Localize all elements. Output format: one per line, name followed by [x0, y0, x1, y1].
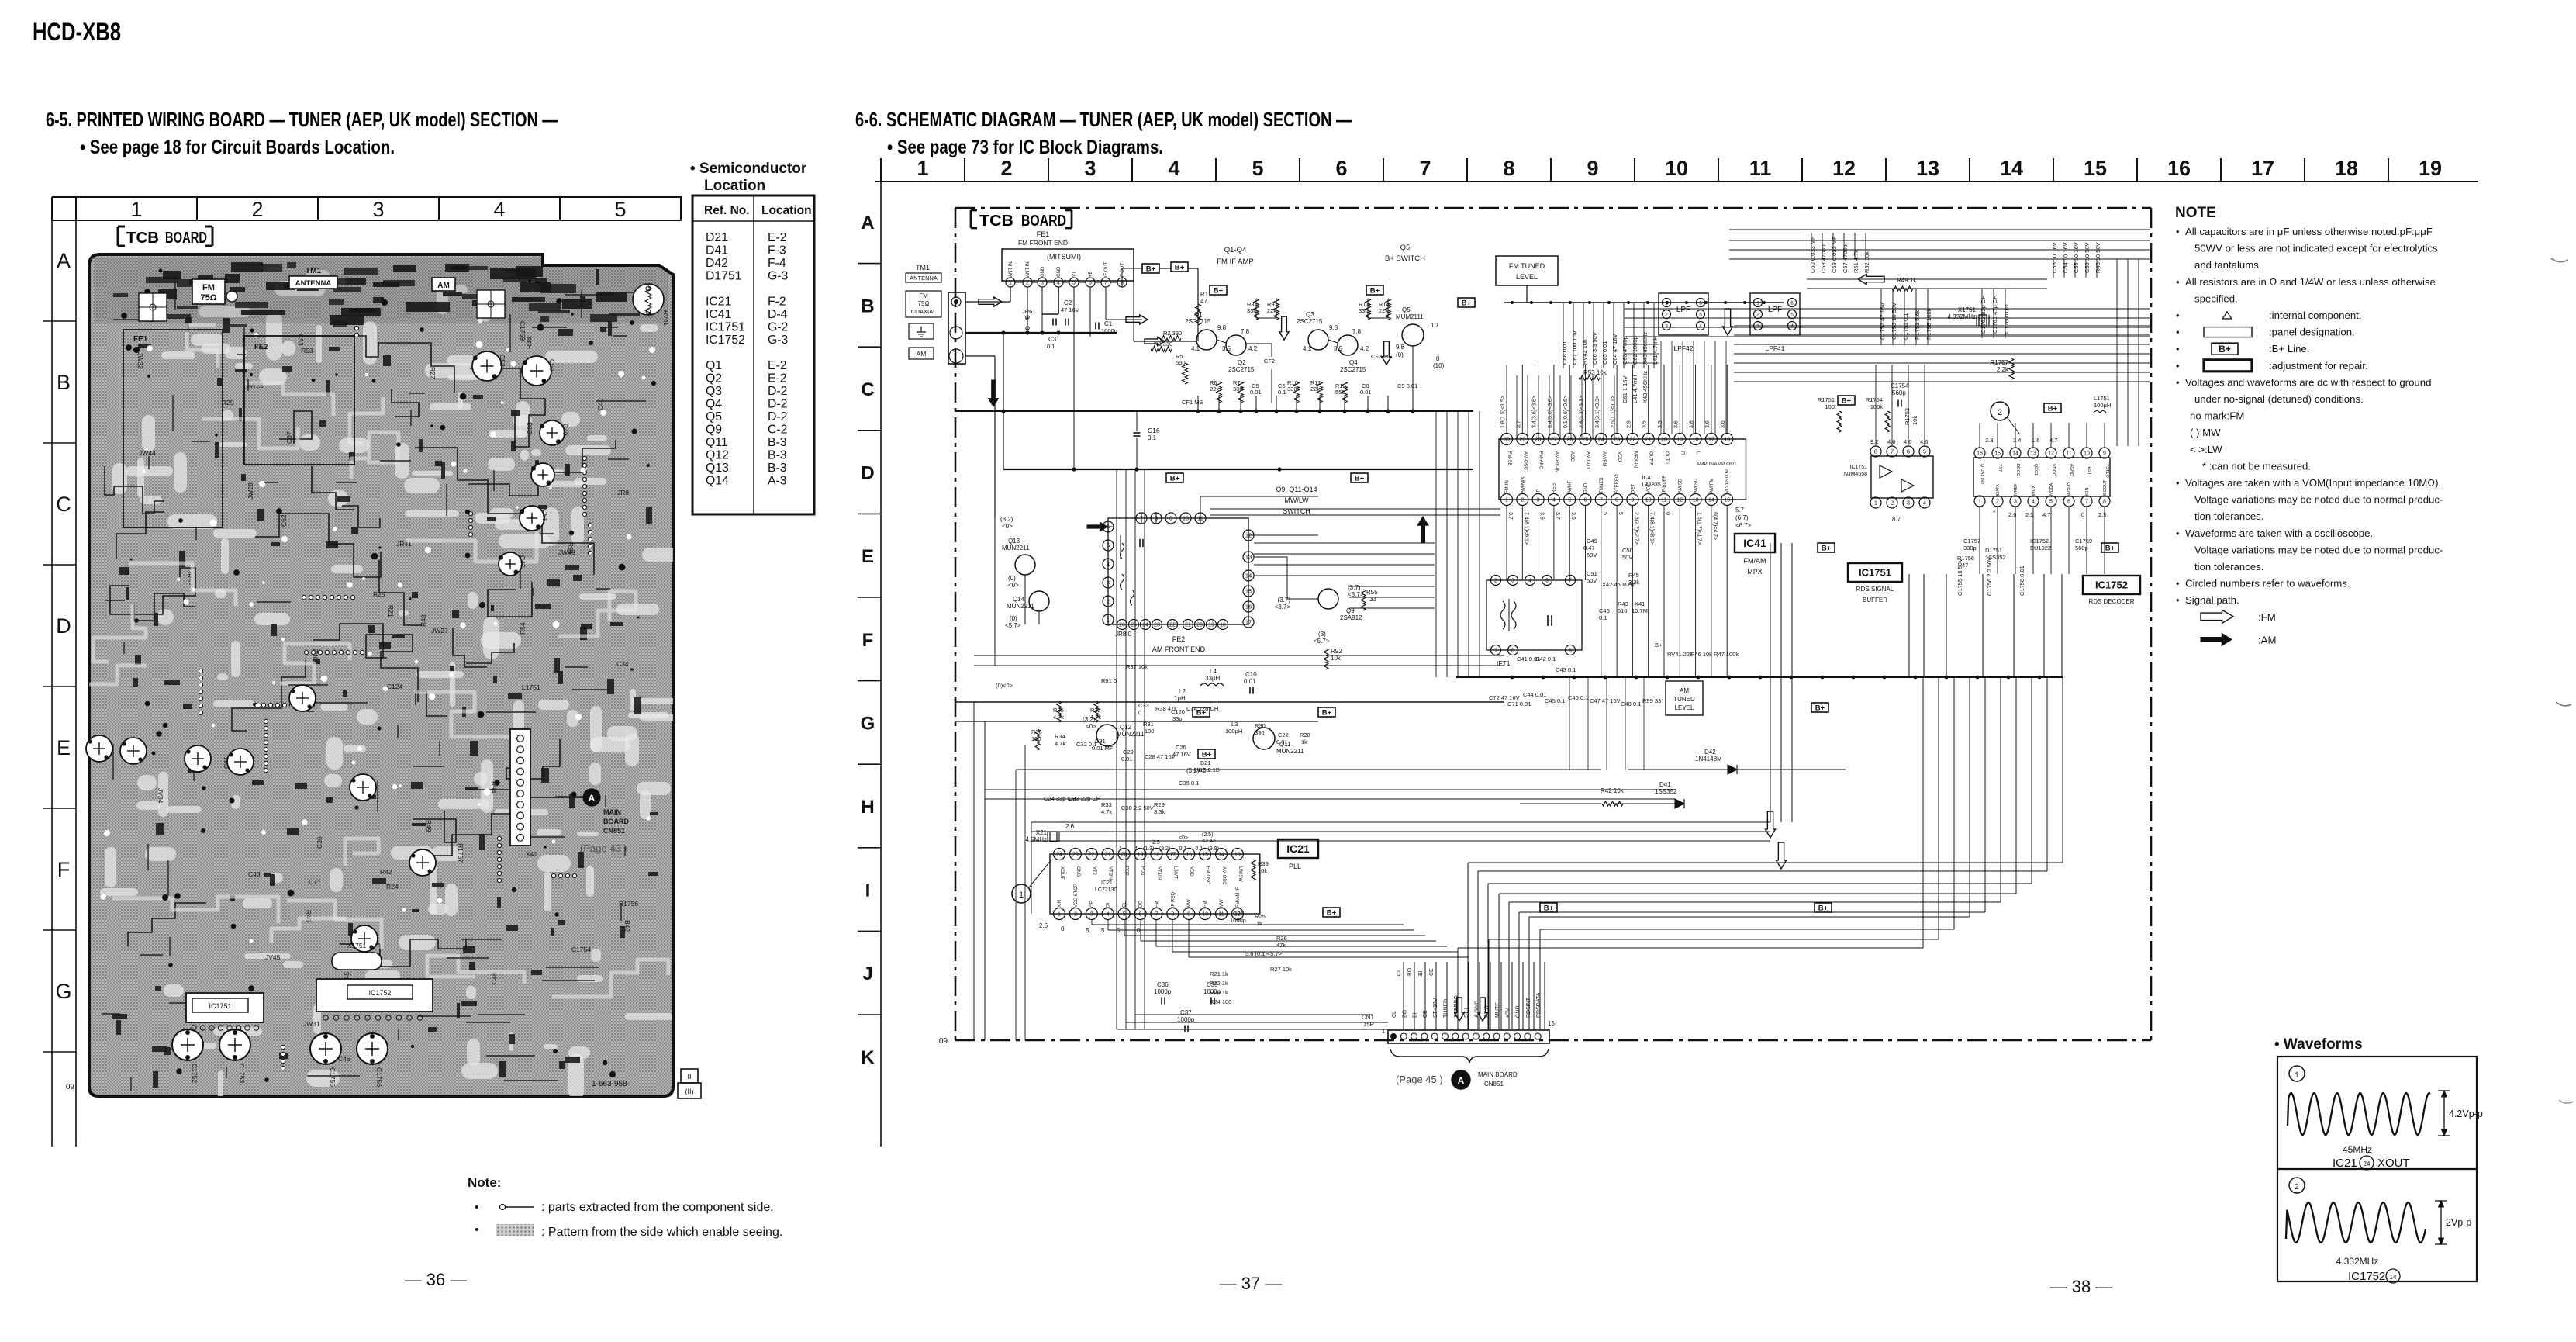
svg-text:14: 14 — [1708, 498, 1714, 503]
wire bundle FE2 to mid — [1254, 542, 1435, 544]
svg-text:R27: R27 — [429, 367, 437, 379]
svg-text:0.01: 0.01 — [1244, 678, 1256, 685]
svg-text:2: 2 — [1996, 500, 1999, 505]
svg-text:tion tolerances.: tion tolerances. — [2194, 510, 2263, 522]
svg-text:IC21: IC21 — [706, 296, 732, 309]
svg-text:GND: GND — [1516, 1005, 1521, 1018]
svg-text:0.1: 0.1 — [1148, 434, 1157, 441]
svg-text:R24: R24 — [386, 883, 399, 891]
svg-text:C1757: C1757 — [1963, 538, 1980, 545]
svg-text:R33: R33 — [1101, 801, 1112, 808]
svg-text:VCO: VCO — [1617, 451, 1621, 462]
svg-text:Note:: Note: — [468, 1175, 501, 1190]
svg-text:5: 5 — [1086, 927, 1089, 934]
waveform 1 panel — [2289, 1066, 2305, 1081]
svg-text:• Waveforms: • Waveforms — [2274, 1036, 2363, 1053]
svg-text:(10): (10) — [1433, 362, 1445, 369]
svg-text:Q14: Q14 — [1013, 596, 1025, 603]
svg-text:(3): (3) — [1318, 631, 1326, 638]
svg-text:6: 6 — [1790, 300, 1794, 306]
svg-text:JW28: JW28 — [247, 482, 254, 500]
B+ box FE1 — [1142, 264, 1159, 273]
svg-text:1: 1 — [917, 157, 928, 180]
svg-text:100: 100 — [1145, 728, 1155, 735]
svg-text:16: 16 — [1245, 604, 1252, 610]
svg-text:IC41: IC41 — [1743, 537, 1766, 549]
svg-text:IF-BUFF: IF-BUFF — [1663, 476, 1667, 493]
svg-text:100: 100 — [1825, 403, 1835, 410]
svg-text:100k: 100k — [1870, 403, 1884, 410]
svg-text:3: 3 — [1107, 579, 1110, 586]
svg-text:R54: R54 — [519, 622, 527, 635]
svg-text:R91 0: R91 0 — [1101, 677, 1117, 684]
svg-text:C43 0.1: C43 0.1 — [1556, 666, 1576, 673]
svg-text:8.7: 8.7 — [1892, 516, 1901, 523]
transistor Q12 — [1096, 725, 1118, 746]
svg-text:4.1: 4.1 — [1191, 345, 1200, 352]
svg-text:4.1: 4.1 — [1303, 345, 1312, 352]
svg-text:27: 27 — [1551, 438, 1557, 443]
svg-text:(0): (0) — [1010, 615, 1017, 622]
svg-text:CL: CL — [1392, 1011, 1397, 1018]
svg-text:2: 2 — [1998, 408, 2002, 417]
svg-text:47k: 47k — [1276, 942, 1286, 949]
svg-text:(Page 45 ): (Page 45 ) — [1396, 1074, 1443, 1085]
svg-text:OUT R: OUT R — [1649, 451, 1653, 466]
svg-text:C33: C33 — [1138, 702, 1149, 709]
svg-text:7.8: 7.8 — [1241, 328, 1250, 335]
svg-text:• Semiconductor: • Semiconductor — [690, 161, 807, 177]
svg-text:AGC: AGC — [1569, 451, 1574, 462]
svg-text:C10: C10 — [1245, 671, 1257, 678]
svg-text:BOARD: BOARD — [1021, 213, 1066, 230]
svg-text:C71 0.01: C71 0.01 — [1507, 700, 1531, 707]
svg-text:1k: 1k — [1301, 738, 1307, 745]
svg-text:R39: R39 — [1258, 860, 1269, 867]
svg-text:•: • — [2176, 578, 2180, 590]
svg-text:9: 9 — [1631, 498, 1634, 503]
svg-text:C64 47 16V: C64 47 16V — [1611, 334, 1618, 365]
svg-text:<0>: <0> — [1086, 723, 1096, 730]
svg-text:Q13: Q13 — [706, 462, 729, 475]
svg-text:FM/AM: FM/AM — [1744, 557, 1766, 565]
svg-text:C36: C36 — [1157, 981, 1169, 988]
IC41 boxed label — [1735, 534, 1775, 552]
svg-text:AGND: AGND — [2067, 482, 2072, 495]
svg-text:FM IF AMP: FM IF AMP — [1217, 258, 1254, 266]
svg-text:C35 0.1: C35 0.1 — [1179, 780, 1199, 787]
svg-text:0.01: 0.01 — [1360, 389, 1372, 396]
svg-text:18: 18 — [1154, 853, 1160, 858]
svg-text:9: 9 — [1169, 515, 1172, 522]
svg-text:• See page 73 for IC Block Dia: • See page 73 for IC Block Diagrams. — [887, 137, 1163, 158]
svg-text:FM: FM — [1155, 901, 1159, 908]
svg-text:10.7M: 10.7M — [1632, 607, 1648, 614]
svg-text:C1759: C1759 — [519, 321, 527, 341]
svg-text:14: 14 — [2012, 451, 2018, 457]
svg-text:6: 6 — [1569, 649, 1572, 654]
wire bundle IC41 top to LPF — [1660, 341, 1662, 434]
svg-text:7: 7 — [1419, 157, 1431, 180]
svg-text:R30: R30 — [1255, 722, 1266, 729]
svg-text:DO: DO — [1139, 901, 1144, 908]
svg-text::B+ Line.: :B+ Line. — [2269, 343, 2309, 355]
svg-text:AM-RF-IN: AM-RF-IN — [1554, 451, 1559, 472]
long vertical wires center-left — [1116, 469, 1117, 1029]
svg-text:ANT IN: ANT IN — [1026, 261, 1031, 277]
waveform 2 panel — [2289, 1178, 2305, 1193]
svg-text:MPX: MPX — [1747, 568, 1763, 576]
svg-text:4.332MHz: 4.332MHz — [1948, 313, 1976, 320]
svg-text:4.2: 4.2 — [1248, 345, 1258, 352]
svg-text:C1755 10 50V: C1755 10 50V — [1956, 559, 1963, 596]
svg-text:• See page 18 for Circuit Boar: • See page 18 for Circuit Boards Locatio… — [80, 137, 395, 158]
svg-text:3.6: 3.6 — [1539, 512, 1545, 520]
svg-text:3.5: 3.5 — [1222, 345, 1231, 352]
svg-text:21: 21 — [1645, 438, 1652, 443]
svg-text:R28: R28 — [1300, 732, 1310, 738]
svg-text:C53 10 50V: C53 10 50V — [2084, 242, 2091, 273]
svg-text:C2: C2 — [1064, 299, 1072, 306]
svg-text:C67 100 10V: C67 100 10V — [1571, 330, 1578, 365]
svg-text::internal component.: :internal component. — [2269, 310, 2362, 321]
svg-text:NJM4558: NJM4558 — [1844, 472, 1867, 477]
svg-text:3: 3 — [1041, 281, 1044, 286]
svg-text:C60 0.033 MF: C60 0.033 MF — [1809, 236, 1816, 273]
wire verticals J row — [1569, 677, 1570, 770]
svg-text:A: A — [589, 793, 596, 804]
svg-text:<5.7>: <5.7> — [1314, 638, 1330, 645]
svg-text:75Ω: 75Ω — [918, 300, 930, 307]
svg-text:C46: C46 — [1599, 607, 1610, 614]
arrow left of R49 — [1858, 275, 1884, 285]
svg-text:47: 47 — [1200, 298, 1207, 305]
svg-text:TS7: TS7 — [1998, 464, 2002, 472]
svg-text:D1751: D1751 — [1985, 547, 2002, 554]
IC41 pin rows — [1499, 439, 1746, 500]
svg-text:CIN: CIN — [2085, 488, 2090, 496]
svg-text:B+: B+ — [1822, 545, 1832, 553]
svg-text:C68 0.01: C68 0.01 — [1561, 341, 1568, 365]
svg-text:: Pattern from the side which: : Pattern from the side which enable see… — [541, 1226, 782, 1239]
svg-text:R2 330: R2 330 — [1163, 330, 1182, 337]
svg-text:PLL: PLL — [1289, 863, 1301, 870]
svg-text:6(4.7)<4.7>: 6(4.7)<4.7> — [1712, 512, 1718, 540]
svg-text:FM: FM — [202, 283, 215, 292]
svg-text:2: 2 — [1494, 579, 1497, 584]
svg-text:3: 3 — [1511, 579, 1514, 584]
svg-text:CE: CE — [1429, 968, 1435, 976]
svg-text:4.7: 4.7 — [2042, 511, 2050, 518]
svg-text:MW: MW — [1220, 899, 1224, 908]
svg-text:IF: IF — [1537, 489, 1542, 493]
svg-text:1: 1 — [1382, 1029, 1385, 1035]
svg-text:C1: C1 — [1104, 320, 1113, 327]
svg-text:X1751: X1751 — [1958, 306, 1977, 313]
svg-text:AM.SD: AM.SD — [1694, 478, 1699, 493]
svg-text:17: 17 — [1169, 853, 1176, 858]
svg-text:Q5: Q5 — [1402, 306, 1411, 313]
B+ box left of IC1751 label — [1811, 703, 1828, 712]
svg-text:C: C — [56, 493, 71, 516]
svg-text:A: A — [861, 213, 874, 233]
svg-text:ST-L: ST-L — [1464, 1006, 1469, 1018]
svg-text:FM TUNED: FM TUNED — [1509, 262, 1545, 270]
svg-text:14: 14 — [1245, 572, 1252, 579]
svg-text:H: H — [861, 797, 874, 818]
svg-text:D21: D21 — [706, 231, 728, 244]
svg-text:<0>: <0> — [1008, 582, 1019, 589]
svg-text:5.7: 5.7 — [1735, 507, 1745, 514]
svg-text:FM: FM — [1203, 901, 1208, 908]
svg-text:1: 1 — [1494, 649, 1497, 654]
svg-text:C16: C16 — [1148, 427, 1160, 434]
svg-text:3.4(3.1)<3.3>: 3.4(3.1)<3.3> — [1595, 396, 1601, 428]
svg-text:VDDO: VDDO — [2051, 464, 2056, 477]
svg-text:10: 10 — [2084, 451, 2090, 457]
svg-text:TM1: TM1 — [306, 267, 321, 275]
svg-text:VT1IN: VT1IN — [1156, 866, 1161, 880]
svg-text:C9 0.01: C9 0.01 — [1397, 382, 1417, 389]
bus line C row — [955, 410, 1124, 412]
svg-text:1: 1 — [1107, 617, 1110, 624]
PCB trimmer RV41 — [633, 284, 664, 315]
svg-text:FM FRONT END: FM FRONT END — [1018, 239, 1068, 247]
FE2 block outline — [1108, 518, 1248, 624]
svg-text:7.4(8.1)<8.1>: 7.4(8.1)<8.1> — [1523, 512, 1528, 545]
svg-text:B+: B+ — [1544, 904, 1554, 913]
svg-text:C1754: C1754 — [571, 946, 591, 953]
svg-text:1: 1 — [1665, 300, 1668, 306]
svg-text:1: 1 — [1119, 846, 1122, 852]
svg-text:R1756: R1756 — [619, 900, 638, 908]
svg-text:6: 6 — [1699, 300, 1702, 306]
circled waveform number 2 — [1991, 402, 2009, 420]
svg-text:24: 24 — [2364, 1160, 2371, 1167]
svg-text:(6.7): (6.7) — [1735, 514, 1749, 521]
svg-text:CL: CL — [1397, 969, 1402, 976]
svg-text:JW31: JW31 — [303, 1020, 320, 1028]
svg-text:FM OSC: FM OSC — [1205, 866, 1210, 885]
svg-text:(0): (0) — [1008, 575, 1016, 582]
arrow up filled at F row — [1417, 517, 1428, 543]
svg-text:19: 19 — [1138, 853, 1144, 858]
svg-text:8: 8 — [1874, 448, 1877, 455]
svg-text:3.6: 3.6 — [1705, 420, 1711, 428]
svg-text:100μH: 100μH — [2094, 402, 2111, 409]
svg-text:Q11: Q11 — [706, 436, 728, 449]
svg-text:(MITSUMI): (MITSUMI) — [1047, 253, 1081, 261]
filled arrow down (AM path) — [989, 380, 999, 406]
svg-text:GND: GND — [1584, 482, 1589, 493]
svg-text:•: • — [2176, 594, 2180, 606]
svg-text:3: 3 — [1084, 157, 1096, 180]
svg-text:16: 16 — [1186, 853, 1192, 858]
svg-text:C22: C22 — [1278, 732, 1289, 738]
svg-text:C28 47 16V: C28 47 16V — [1145, 753, 1176, 760]
svg-text:13: 13 — [1245, 554, 1252, 561]
svg-text:Q3: Q3 — [1306, 311, 1314, 318]
svg-text:R48 10 50V: R48 10 50V — [2094, 242, 2101, 273]
svg-text:560p: 560p — [1892, 389, 1906, 396]
svg-text:L1751: L1751 — [522, 683, 540, 691]
svg-text:C47 47 16V: C47 47 16V — [1590, 697, 1621, 704]
svg-text:+5V: +5V — [1505, 1008, 1511, 1018]
svg-text:AM OSC: AM OSC — [1221, 866, 1226, 885]
svg-text:L2: L2 — [1179, 688, 1186, 695]
svg-text:A-3: A-3 — [768, 475, 787, 488]
svg-text:C39: C39 — [1207, 981, 1218, 988]
svg-text:R49: R49 — [425, 820, 433, 832]
svg-text:4: 4 — [2032, 500, 2035, 505]
svg-text:26: 26 — [1566, 438, 1573, 443]
svg-text:AM FRONT END: AM FRONT END — [1152, 645, 1206, 653]
svg-text:4: 4 — [1528, 579, 1531, 584]
svg-text:3.5: 3.5 — [1642, 420, 1648, 428]
svg-text:ANTENNA: ANTENNA — [295, 279, 332, 288]
svg-text:F-4: F-4 — [768, 257, 786, 270]
svg-text:1: 1 — [2295, 1071, 2299, 1080]
svg-text:RDSDATA: RDSDATA — [1536, 992, 1542, 1018]
svg-text:19: 19 — [1676, 438, 1683, 443]
B+ small box above IC1752 — [2044, 403, 2061, 413]
svg-text:RDS DECODER: RDS DECODER — [2088, 598, 2134, 605]
svg-text:B+: B+ — [2048, 405, 2058, 413]
svg-text:4: 4 — [1790, 323, 1794, 329]
svg-text:0: 0 — [2081, 511, 2084, 518]
svg-text:B+: B+ — [1370, 287, 1380, 296]
svg-text:16: 16 — [2167, 157, 2191, 180]
svg-text:B-3: B-3 — [768, 436, 787, 449]
svg-text:IC1751: IC1751 — [209, 1002, 231, 1010]
svg-text:R34: R34 — [1055, 733, 1065, 740]
svg-text:29: 29 — [1519, 438, 1525, 443]
svg-text:B21: B21 — [1200, 759, 1210, 766]
PCB electrolytic capacitors bottom row — [172, 1029, 203, 1060]
svg-text:6-6. SCHEMATIC DIAGRAM — TUNER: 6-6. SCHEMATIC DIAGRAM — TUNER (AEP, UK … — [855, 108, 1352, 131]
transistor Q4 — [1338, 335, 1358, 355]
waveforms outer box — [2277, 1057, 2477, 1281]
LPF41 block — [1750, 293, 1800, 335]
arrow into FE2 pin6 — [1087, 522, 1107, 531]
svg-text:2: 2 — [1521, 498, 1524, 503]
svg-text:1k: 1k — [1256, 920, 1262, 927]
svg-text:L41 4.7mH: L41 4.7mH — [1652, 336, 1659, 365]
svg-text:R1751: R1751 — [1818, 396, 1835, 403]
svg-text:<2.4>: <2.4> — [1202, 839, 1216, 844]
svg-text:C62 1000p: C62 1000p — [1632, 336, 1638, 365]
svg-text:2.9: 2.9 — [1626, 420, 1632, 428]
wires FE2 area — [1087, 526, 1114, 527]
svg-text:4: 4 — [1699, 323, 1702, 329]
svg-text:B+: B+ — [1655, 642, 1663, 649]
svg-text:4.7k: 4.7k — [1055, 740, 1065, 747]
svg-text:13: 13 — [1916, 157, 1939, 180]
svg-text:D-2: D-2 — [768, 398, 787, 411]
svg-text:1: 1 — [1978, 500, 1981, 505]
FM 75ohm COAXIAL label — [906, 291, 941, 317]
svg-text:R45: R45 — [1628, 572, 1639, 579]
svg-text:G: G — [55, 980, 71, 1003]
scan artifact marks — [2551, 258, 2568, 262]
svg-text:no mark:FM: no mark:FM — [2190, 410, 2244, 422]
svg-text:2: 2 — [1665, 312, 1668, 317]
svg-text:•: • — [2176, 527, 2180, 539]
svg-text:<0>: <0> — [1002, 523, 1013, 530]
svg-text:C67: C67 — [285, 431, 293, 444]
svg-text:3.6: 3.6 — [1673, 420, 1679, 428]
svg-text:IFT1: IFT1 — [1497, 659, 1511, 667]
svg-text:FM/AM IF: FM/AM IF — [1236, 887, 1241, 908]
svg-text:4: 4 — [1107, 912, 1110, 918]
capacitor C1 — [1095, 323, 1096, 330]
svg-text:Q5: Q5 — [1400, 244, 1411, 252]
svg-text:JR8 0: JR8 0 — [1115, 631, 1131, 638]
svg-text:under no-signal (detuned) cond: under no-signal (detuned) conditions. — [2194, 393, 2364, 405]
svg-text:D-4: D-4 — [768, 308, 788, 321]
svg-text:C47: C47 — [519, 555, 527, 568]
svg-text:0.1: 0.1 — [1138, 709, 1146, 716]
svg-text:1-663-958-: 1-663-958- — [592, 1080, 630, 1088]
wires FE2-top to IC41 region — [1210, 508, 1500, 510]
svg-text:B: B — [57, 371, 71, 394]
svg-text:9: 9 — [1587, 157, 1598, 180]
svg-text:5: 5 — [1545, 579, 1549, 584]
svg-text:GND: GND — [1041, 266, 1045, 277]
svg-text:LPF41: LPF41 — [1765, 344, 1784, 352]
svg-text:9.2: 9.2 — [1870, 438, 1878, 445]
svg-text:IC1752: IC1752 — [2348, 1270, 2385, 1283]
svg-text:TCB: TCB — [979, 213, 1013, 230]
svg-text:10: 10 — [1431, 322, 1438, 329]
svg-text:1.6(1.7)<1.7>: 1.6(1.7)<1.7> — [1697, 512, 1702, 545]
svg-text:5: 5 — [1107, 542, 1110, 549]
svg-text:C65 0.01: C65 0.01 — [1601, 341, 1608, 365]
main ground bus row G — [1456, 676, 2063, 678]
svg-text:9.8: 9.8 — [1396, 344, 1405, 351]
svg-text:C1759: C1759 — [2075, 538, 2092, 545]
svg-text:2.3(2.7)<2.7>: 2.3(2.7)<2.7> — [1633, 512, 1638, 545]
svg-text:0.1: 0.1 — [1599, 614, 1607, 621]
svg-text:B: B — [861, 296, 874, 316]
svg-text:19: 19 — [2419, 157, 2442, 180]
svg-text:* :can not be measured.: * :can not be measured. — [2202, 460, 2311, 472]
svg-text:26: 26 — [1119, 623, 1125, 628]
svg-text:R1757: R1757 — [457, 843, 464, 863]
wire rows H right — [1770, 821, 1923, 823]
svg-text:12: 12 — [2048, 451, 2054, 457]
svg-text:10: 10 — [1183, 515, 1189, 522]
svg-text:C1754: C1754 — [1891, 382, 1909, 389]
PCB IC1752 silkscreen — [316, 979, 433, 1012]
schematic grid row label column — [880, 182, 882, 1147]
svg-text:VDDA: VDDA — [2049, 482, 2054, 495]
svg-text:2: 2 — [1026, 281, 1029, 286]
svg-text:R42 10k: R42 10k — [1601, 787, 1625, 794]
LPF42 block — [1659, 293, 1708, 335]
svg-text:45MHz: 45MHz — [2343, 1144, 2372, 1155]
svg-text:B-3: B-3 — [768, 449, 787, 462]
svg-text:4.6: 4.6 — [1920, 438, 1928, 445]
svg-text:4: 4 — [1923, 500, 1926, 507]
svg-text:C40: C40 — [596, 398, 604, 410]
svg-text:IC1752: IC1752 — [2095, 579, 2128, 591]
svg-text:3.3k: 3.3k — [1628, 579, 1639, 586]
svg-text:IC1751: IC1751 — [1859, 567, 1891, 579]
svg-text:0.1(0.6)<0.6>: 0.1(0.6)<0.6> — [1563, 396, 1569, 428]
svg-text:AMP IN: AMP IN — [1697, 462, 1714, 467]
svg-text:R92: R92 — [1331, 648, 1342, 655]
